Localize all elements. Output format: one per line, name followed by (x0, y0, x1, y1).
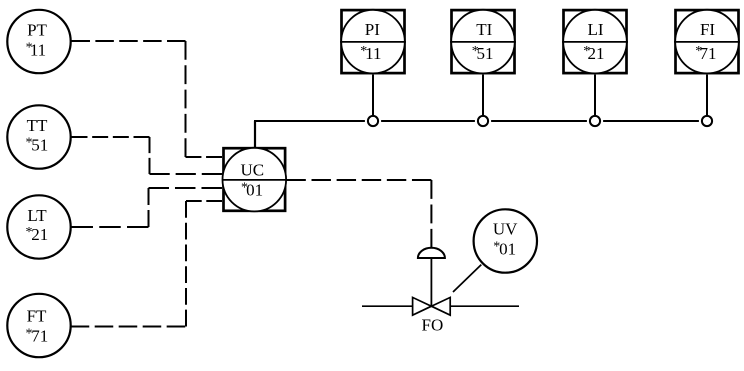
wire dashed signal TT to UC (72, 137, 223, 174)
svg-text:*: * (472, 44, 479, 59)
instrument bubble TT *51 (7, 105, 70, 168)
label FO fail open (422, 315, 444, 334)
svg-text:PI: PI (365, 20, 380, 39)
wire horizontal bus line (254, 120, 699, 122)
svg-text:21: 21 (31, 225, 48, 244)
node junction circle below FI (702, 116, 712, 126)
wire dashed signal LT to UC (72, 188, 223, 227)
svg-text:*: * (695, 44, 702, 59)
wire UV to valve diagonal (453, 265, 481, 292)
instrument bubble PT *11 (7, 10, 70, 73)
wire dashed signal PT to UC (72, 41, 223, 157)
wire UC to bus riser (254, 121, 256, 147)
svg-text:FO: FO (422, 315, 444, 334)
wire riser TI to bus (482, 75, 484, 117)
svg-text:UC: UC (240, 160, 264, 179)
svg-text:*: * (583, 44, 590, 59)
svg-text:*: * (26, 135, 33, 150)
svg-text:TI: TI (476, 20, 492, 39)
svg-text:LI: LI (587, 20, 603, 39)
valve actuator stem (430, 258, 432, 306)
indicator LI *21 shared display square (562, 10, 628, 74)
valve actuator diaphragm dome (418, 248, 445, 258)
wire riser PI to bus (372, 75, 374, 117)
svg-text:FT: FT (27, 307, 47, 326)
svg-text:UV: UV (493, 220, 518, 239)
svg-text:*: * (241, 180, 248, 195)
control valve body bowtie (413, 297, 451, 315)
node junction circle below PI (368, 116, 378, 126)
svg-text:*: * (493, 240, 500, 255)
instrument bubble LT *21 (7, 195, 70, 258)
svg-text:71: 71 (31, 327, 48, 346)
svg-text:01: 01 (499, 240, 516, 259)
svg-text:*: * (360, 44, 367, 59)
indicator TI *51 shared display square (450, 10, 516, 74)
wire riser FI to bus (706, 75, 708, 117)
pipe line left of valve (362, 305, 413, 307)
svg-text:FI: FI (700, 20, 715, 39)
indicator FI *71 shared display square (674, 10, 740, 74)
controller UC *01 shared display square (222, 148, 286, 212)
svg-text:01: 01 (246, 180, 263, 199)
indicator PI *11 shared display square (340, 10, 406, 74)
svg-text:PT: PT (27, 20, 47, 39)
wire dashed signal UC to valve actuator (286, 180, 431, 248)
node junction circle below LI (590, 116, 600, 126)
svg-text:*: * (26, 327, 33, 342)
svg-text:11: 11 (365, 44, 381, 63)
wire dashed signal FT to UC (71, 201, 222, 327)
svg-text:*: * (26, 41, 33, 56)
svg-text:*: * (26, 225, 33, 240)
instrument bubble FT *71 (7, 294, 70, 357)
node junction circle below TI (478, 116, 488, 126)
instrument bubble UV *01 (474, 209, 537, 272)
svg-text:LT: LT (27, 206, 47, 225)
wire riser LI to bus (594, 75, 596, 117)
pipe line right of valve (450, 305, 519, 307)
svg-text:TT: TT (27, 116, 48, 135)
svg-text:51: 51 (31, 135, 48, 154)
svg-text:51: 51 (477, 44, 494, 63)
